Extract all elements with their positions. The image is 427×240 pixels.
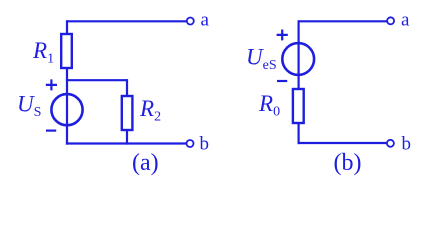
wire: circuit (b) below R0 to bottom rail (298, 123, 300, 144)
svg-text:R1: R1 (32, 38, 54, 67)
svg-text:(b): (b) (334, 150, 362, 176)
wire: circuit (a) below R2 to bottom rail (126, 130, 128, 145)
terminal b (circuit b) (387, 140, 394, 147)
minus sign (circuit a) (46, 130, 56, 132)
wire: circuit (b) top horizontal to terminal a (299, 20, 387, 22)
svg-text:(a): (a) (132, 150, 159, 176)
svg-text:US: US (17, 92, 41, 121)
resistor R0 (293, 89, 304, 123)
wire: circuit (a) top horizontal to terminal a (67, 20, 187, 22)
svg-text:R0: R0 (258, 91, 280, 120)
terminal a (circuit a) (187, 18, 194, 25)
minus sign (circuit b) (277, 80, 287, 82)
svg-text:b: b (402, 134, 412, 155)
wire: circuit (b) left vertical from top through source into R0 (298, 20, 300, 90)
terminal a (circuit b) (387, 17, 394, 24)
wire: circuit (a) branch vertical into R2 top (126, 79, 128, 97)
plus sign (circuit a) (46, 79, 57, 90)
wire: circuit (b) bottom rail to terminal b (298, 142, 387, 144)
plus sign (circuit b) (277, 30, 288, 41)
svg-text:R2: R2 (139, 96, 161, 125)
wire: circuit (a) bottom rail to terminal b (66, 142, 186, 144)
wire: circuit (a) branch horizontal to R2 (66, 79, 127, 81)
voltage source US circle (51, 94, 82, 125)
terminal b (circuit a) (187, 140, 194, 147)
svg-text:a: a (401, 10, 410, 31)
wire: circuit (a) left vertical through source down to bottom rail (66, 68, 68, 145)
svg-text:b: b (200, 134, 210, 155)
svg-text:a: a (201, 10, 210, 31)
resistor R2 (122, 96, 133, 130)
svg-text:UeS: UeS (246, 45, 277, 74)
resistor R1 (61, 34, 72, 68)
wire: circuit (a) left vertical from top wire into R1 (66, 20, 68, 35)
voltage source UeS circle (282, 43, 314, 75)
